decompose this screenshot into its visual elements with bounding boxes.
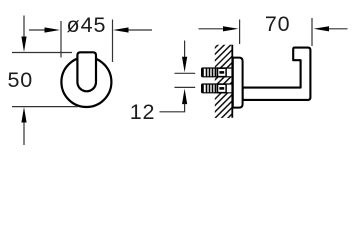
svg-text:ø45: ø45	[66, 13, 106, 37]
svg-text:12: 12	[130, 100, 156, 124]
svg-text:70: 70	[265, 12, 291, 36]
svg-text:50: 50	[8, 68, 34, 92]
